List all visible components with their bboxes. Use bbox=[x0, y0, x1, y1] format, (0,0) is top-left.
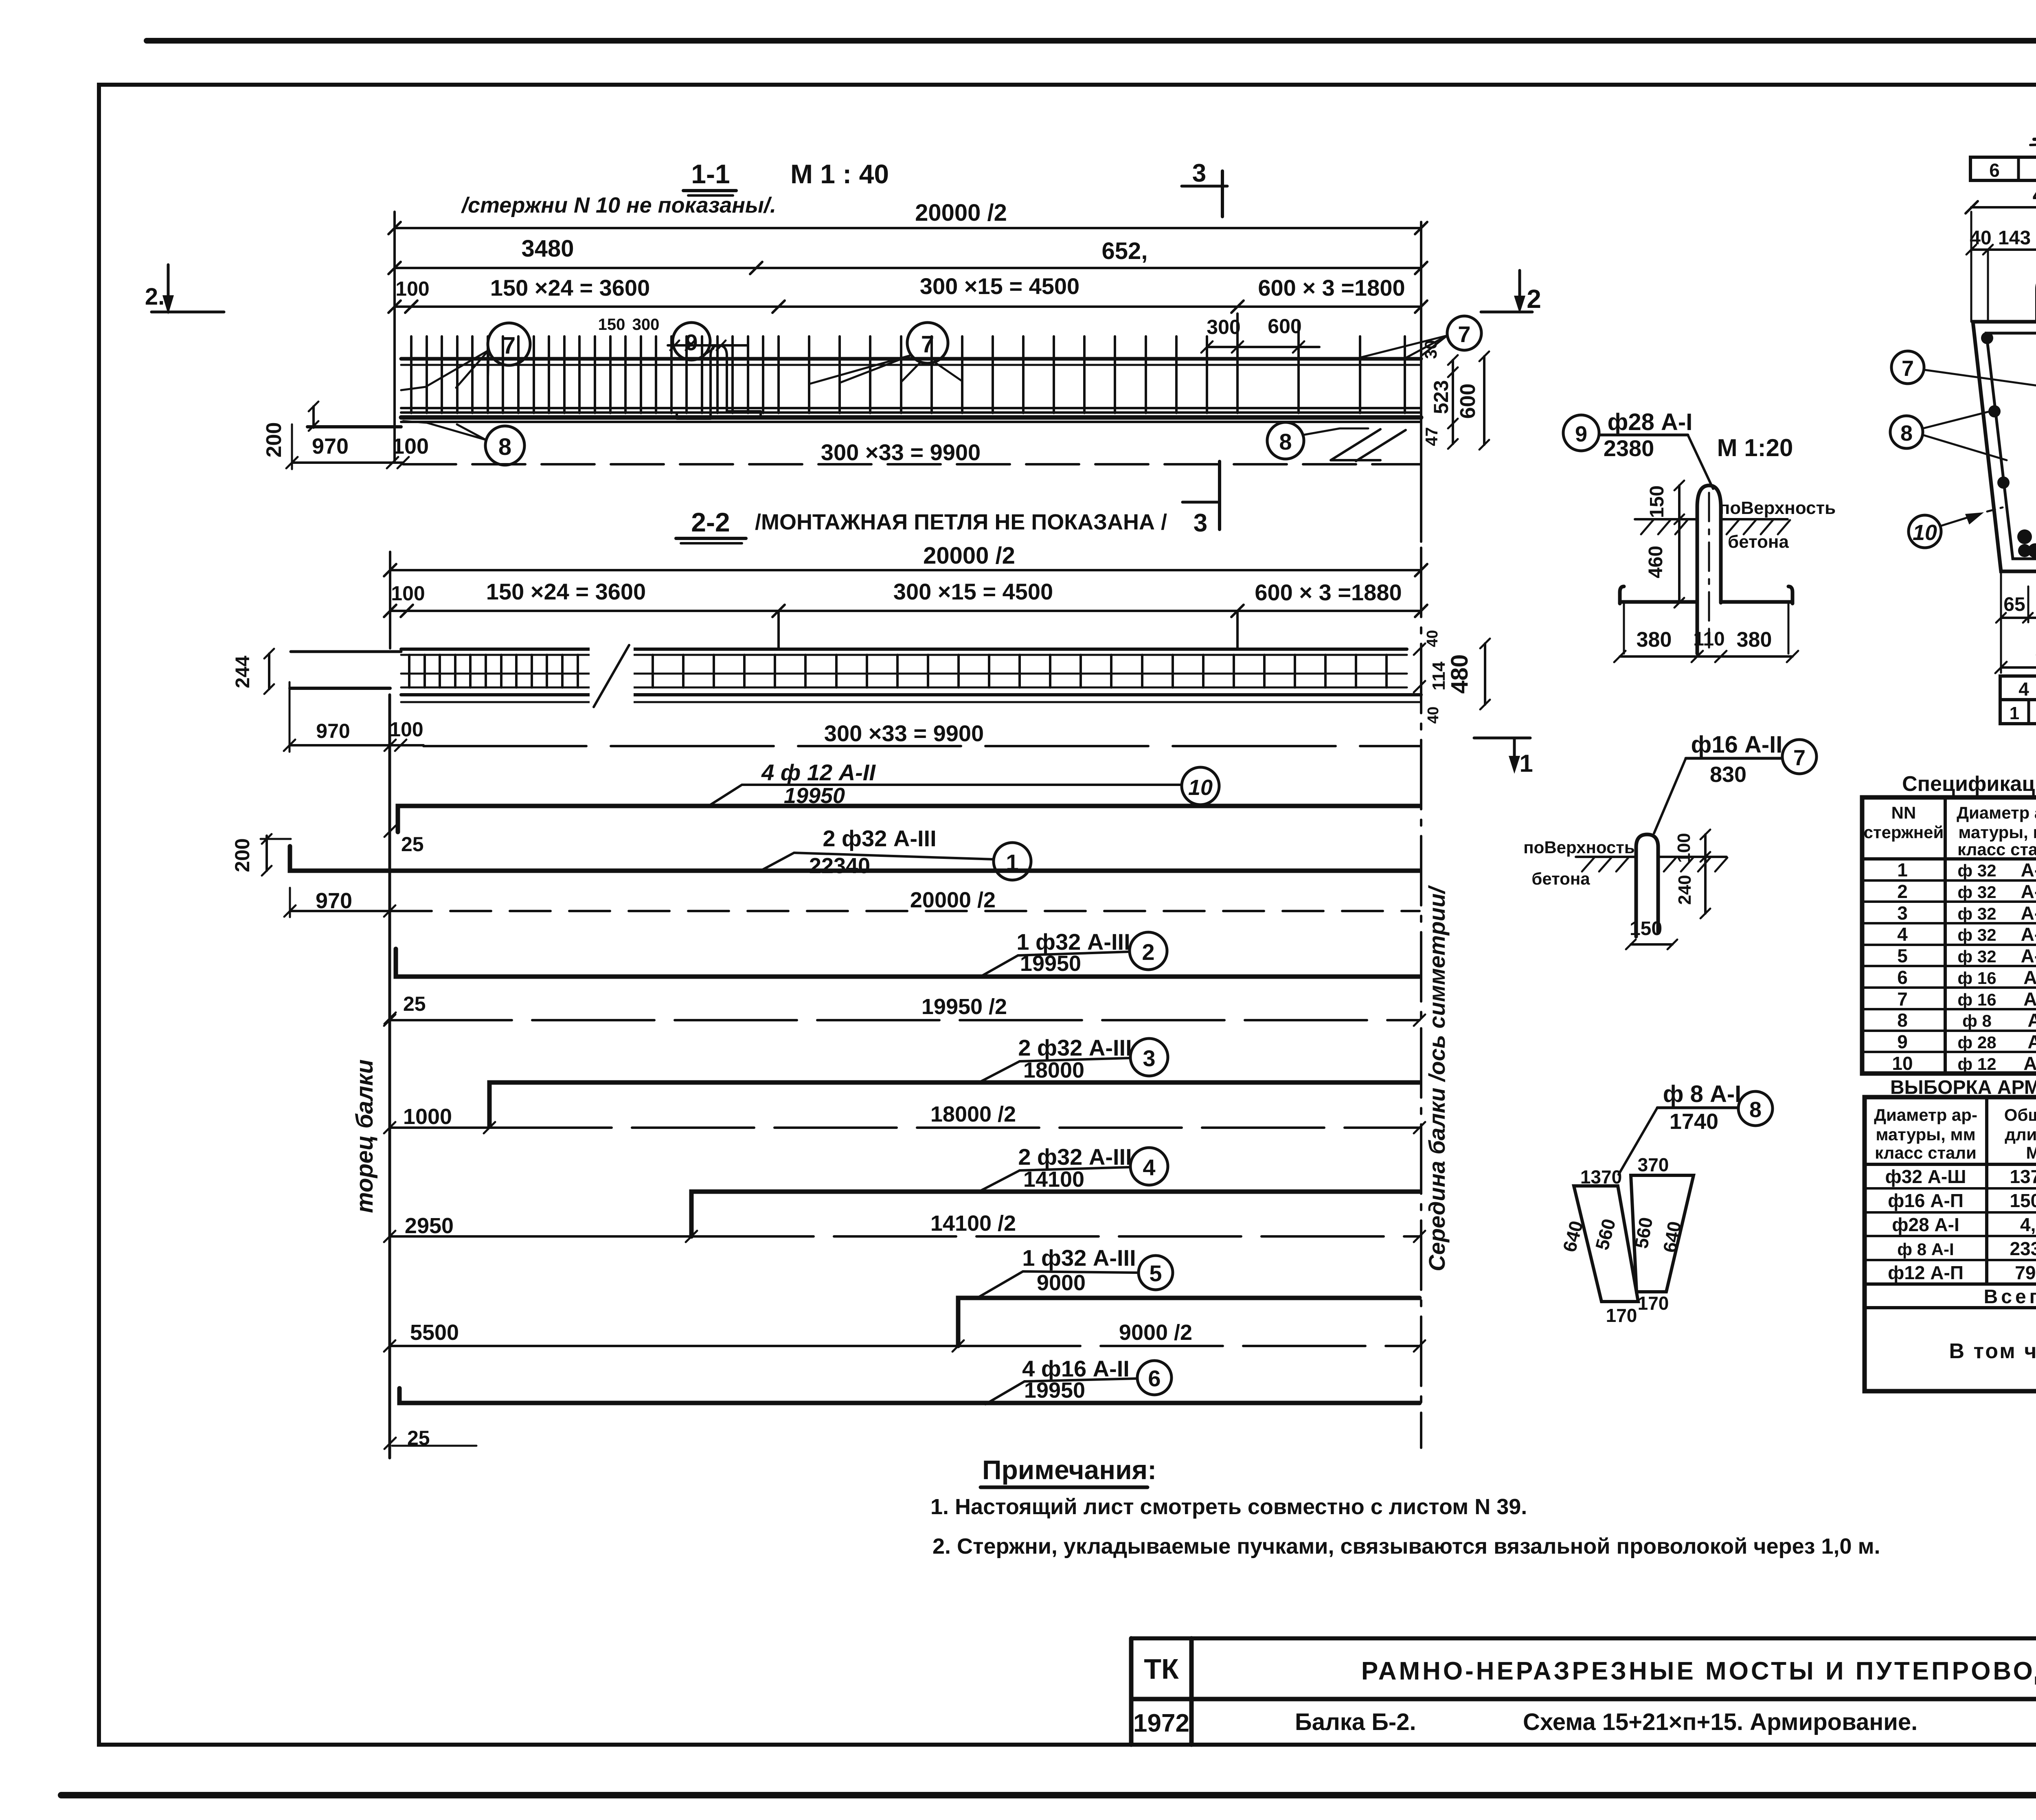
bar 4 label bbox=[979, 1144, 1168, 1192]
svg-text:Всего: Всего bbox=[1984, 1286, 2036, 1308]
svg-text:А-Ш: А-Ш bbox=[2021, 902, 2036, 924]
svg-text:480: 480 bbox=[2033, 181, 2036, 208]
40 143 114 143 40 dim bbox=[1966, 223, 2036, 255]
svg-text:200: 200 bbox=[262, 422, 286, 458]
svg-text:7: 7 bbox=[1458, 321, 1470, 347]
callout circle 7 right bbox=[1360, 316, 1481, 358]
table 2 title bbox=[1890, 1077, 2036, 1098]
callout circle 8 detail bbox=[1738, 1091, 1773, 1126]
svg-text:2-2: 2-2 bbox=[691, 507, 730, 537]
svg-text:А-Ш: А-Ш bbox=[2021, 859, 2036, 880]
table 1 header text bbox=[1864, 803, 2036, 859]
svg-text:Диаметр ар-: Диаметр ар- bbox=[1874, 1105, 1977, 1124]
section 3-3 title bbox=[2030, 110, 2036, 149]
dim row 1000 / 18000/2 bbox=[384, 1102, 1425, 1133]
symmetry axis vertical bbox=[1420, 548, 1422, 1448]
svg-text:ф28 А-I: ф28 А-I bbox=[1892, 1214, 1959, 1235]
callout circle 7 left bbox=[401, 323, 530, 390]
stirrups (bars 7) bbox=[411, 336, 1405, 413]
svg-text:ф 32: ф 32 bbox=[1957, 904, 1996, 923]
svg-text:2950: 2950 bbox=[405, 1214, 454, 1238]
svg-text:970: 970 bbox=[316, 889, 352, 913]
strip verticals bbox=[409, 655, 1387, 687]
svg-text:ф 8 А-I: ф 8 А-I bbox=[1897, 1240, 1954, 1259]
svg-text:1: 1 bbox=[1897, 859, 1908, 880]
callout circle 7 detail bbox=[1782, 740, 1817, 774]
svg-text:1000: 1000 bbox=[403, 1104, 452, 1129]
dim vertical right (axis) bbox=[1420, 222, 1422, 542]
svg-text:Примечания:: Примечания: bbox=[982, 1455, 1156, 1485]
beam top chord bbox=[401, 359, 1421, 365]
svg-text:2.: 2. bbox=[145, 283, 165, 310]
svg-text:Диаметр ар-: Диаметр ар- bbox=[1957, 803, 2036, 822]
svg-text:244: 244 bbox=[232, 656, 254, 688]
svg-text:20000 /2: 20000 /2 bbox=[923, 542, 1015, 569]
svg-text:ф 12: ф 12 bbox=[1957, 1054, 1996, 1074]
svg-text:бетона: бетона bbox=[1531, 869, 1590, 888]
svg-text:1-1: 1-1 bbox=[691, 159, 730, 189]
2-2 slab strip bbox=[401, 649, 1421, 702]
svg-text:3: 3 bbox=[1897, 902, 1908, 924]
left 244 bracket bbox=[232, 649, 401, 694]
svg-text:150: 150 bbox=[1630, 918, 1662, 940]
svg-text:1 ф32 А-III: 1 ф32 А-III bbox=[1022, 1245, 1136, 1271]
label ф16 A-II 830 bbox=[1654, 731, 1782, 833]
svg-text:652,: 652, bbox=[1102, 238, 1148, 264]
svg-text:А-П: А-П bbox=[2023, 988, 2036, 1010]
dim line 20000/2 (2-2) bbox=[384, 542, 1427, 576]
bar 10 bbox=[384, 806, 1419, 856]
svg-text:5500: 5500 bbox=[410, 1320, 459, 1345]
svg-text:25: 25 bbox=[403, 992, 426, 1015]
outer bottom scan line bbox=[61, 1792, 2036, 1798]
svg-text:9: 9 bbox=[685, 329, 698, 355]
dim line 20000/2 bbox=[388, 200, 1427, 234]
dim row 970 / 20000/2 bbox=[284, 888, 1419, 917]
svg-text:150,4: 150,4 bbox=[2010, 1190, 2036, 1211]
svg-text:1 ф32 А-III: 1 ф32 А-III bbox=[1016, 929, 1130, 955]
section mark 3 bottom bbox=[1183, 461, 1220, 537]
dim row 5500 / 9000/2 bbox=[384, 1320, 1425, 1352]
svg-text:9: 9 bbox=[1897, 1031, 1908, 1052]
svg-text:10: 10 bbox=[1913, 520, 1937, 545]
svg-text:10: 10 bbox=[1188, 775, 1213, 800]
svg-text:40: 40 bbox=[1424, 630, 1441, 647]
bar 10 label bbox=[709, 760, 1219, 808]
svg-text:100: 100 bbox=[395, 277, 429, 300]
callout circle 9 bbox=[673, 323, 713, 360]
svg-text:1: 1 bbox=[1006, 850, 1018, 875]
svg-text:300 ×15 = 4500: 300 ×15 = 4500 bbox=[893, 579, 1053, 604]
table 1 grid bbox=[1862, 797, 2036, 1074]
svg-text:8: 8 bbox=[1900, 421, 1913, 446]
section 2-2 title bbox=[676, 507, 1167, 543]
svg-text:поВерхность: поВерхность bbox=[1719, 498, 1836, 518]
svg-text:240: 240 bbox=[1675, 875, 1695, 905]
right side height dims 30 523 47 600 bbox=[1421, 340, 1489, 450]
svg-text:25: 25 bbox=[401, 833, 424, 856]
svg-text:300 ×33 = 9900: 300 ×33 = 9900 bbox=[821, 439, 981, 465]
svg-text:380: 380 bbox=[1737, 628, 1772, 652]
svg-text:8: 8 bbox=[498, 434, 511, 460]
svg-text:600: 600 bbox=[1456, 384, 1480, 419]
svg-text:ф 8: ф 8 bbox=[1962, 1011, 1992, 1030]
svg-text:4: 4 bbox=[1143, 1155, 1155, 1180]
380 110 380 dim bbox=[1614, 628, 1798, 662]
svg-text:600: 600 bbox=[1268, 315, 1301, 338]
svg-text:6: 6 bbox=[1897, 967, 1908, 988]
svg-text:18000 /2: 18000 /2 bbox=[930, 1102, 1016, 1126]
svg-text:2 ф32 А-III: 2 ф32 А-III bbox=[1018, 1035, 1132, 1060]
text 7 left numerals bbox=[498, 321, 1471, 460]
svg-text:300: 300 bbox=[1207, 316, 1240, 338]
callout circle 8 right bbox=[1267, 422, 1406, 461]
svg-text:40: 40 bbox=[1425, 707, 1442, 724]
svg-text:ф 16: ф 16 bbox=[1957, 968, 1996, 988]
dim line spacings (2-2) bbox=[384, 579, 1427, 649]
callout circle 8 left bbox=[403, 421, 524, 465]
bar 1 bbox=[290, 846, 1419, 871]
bottom 65 105 105 65 dim bbox=[1996, 571, 2036, 673]
svg-text:9: 9 bbox=[1575, 422, 1587, 446]
svg-text:Схема 15+21×п+15. Армировани: Схема 15+21×п+15. Армирование. bbox=[1523, 1709, 1918, 1735]
svg-text:матуры, мм: матуры, мм bbox=[1876, 1125, 1975, 1144]
svg-text:А-Ш: А-Ш bbox=[2021, 945, 2036, 966]
mini dims 300 600 right part bbox=[1201, 314, 1319, 371]
340 dim bbox=[1995, 638, 2036, 673]
svg-text:233,0: 233,0 bbox=[2010, 1238, 2036, 1259]
svg-text:47: 47 bbox=[1422, 427, 1441, 446]
svg-text:1: 1 bbox=[1519, 750, 1533, 777]
svg-text:20000 /2: 20000 /2 bbox=[915, 200, 1007, 226]
svg-text:22340: 22340 bbox=[809, 854, 870, 878]
svg-text:А-П: А-П bbox=[2023, 1053, 2036, 1074]
callout circle 7 middle bbox=[810, 323, 962, 384]
svg-text:1740: 1740 bbox=[1670, 1109, 1718, 1134]
svg-text:830: 830 bbox=[1710, 762, 1746, 787]
svg-text:Спецификация арматуры на од: Спецификация арматуры на одну балку. bbox=[1902, 772, 2036, 796]
svg-text:ф 8 А-I: ф 8 А-I bbox=[1663, 1081, 1742, 1107]
svg-text:ф16 А-II: ф16 А-II bbox=[1691, 731, 1783, 758]
right 480 dim (2-2) bbox=[1414, 630, 1490, 724]
svg-text:ф16 А-П: ф16 А-П bbox=[1888, 1190, 1964, 1211]
table 2 header text bbox=[1874, 1105, 2036, 1162]
section mark 2 left bbox=[145, 265, 224, 314]
svg-text:ф12 А-П: ф12 А-П bbox=[1888, 1262, 1964, 1283]
beam section outline bbox=[1973, 322, 2036, 571]
concrete surface hatch (ф16) bbox=[1523, 838, 1727, 888]
svg-text:класс стали: класс стали bbox=[1875, 1143, 1977, 1162]
svg-text:380: 380 bbox=[1637, 628, 1672, 652]
svg-text:7: 7 bbox=[1902, 356, 1914, 381]
dim row 19950/2 bbox=[384, 995, 1425, 1026]
bar 3 bbox=[489, 1082, 1419, 1126]
callout circle 10 (3-3) bbox=[1909, 507, 2003, 548]
svg-text:4 ф 12 А-II: 4 ф 12 А-II bbox=[761, 760, 876, 785]
svg-text:2: 2 bbox=[1897, 881, 1908, 902]
bar 6 bbox=[384, 1388, 1419, 1449]
svg-text:600 × 3 =1800: 600 × 3 =1800 bbox=[1258, 275, 1405, 301]
svg-text:А-Ш: А-Ш bbox=[2021, 881, 2036, 902]
svg-text:М: М bbox=[2026, 1143, 2036, 1162]
table 2 totals bbox=[1949, 1286, 2036, 1390]
svg-text:ф 32: ф 32 bbox=[1957, 925, 1996, 944]
svg-text:/стержни N 10 не показаны/.: /стержни N 10 не показаны/. bbox=[461, 193, 776, 217]
note: стержни N10 не показаны bbox=[461, 193, 776, 217]
svg-text:Середина балки /ось симметр: Середина балки /ось симметрии/ bbox=[1424, 885, 1450, 1271]
callout circle 7 (3-3) bbox=[1891, 351, 2036, 390]
svg-text:100: 100 bbox=[389, 718, 423, 741]
svg-text:4: 4 bbox=[2018, 678, 2029, 700]
svg-text:137,9: 137,9 bbox=[2010, 1166, 2036, 1187]
svg-text:300 ×33 = 9900: 300 ×33 = 9900 bbox=[824, 720, 984, 746]
svg-text:ф 32: ф 32 bbox=[1957, 883, 1996, 902]
svg-text:5: 5 bbox=[1149, 1260, 1162, 1286]
bar 2 bbox=[384, 949, 1419, 1024]
notes bbox=[930, 1455, 1880, 1559]
bar 2 label bbox=[981, 929, 1167, 977]
outer top scan line bbox=[147, 38, 2036, 44]
svg-text:14100 /2: 14100 /2 bbox=[930, 1211, 1016, 1236]
svg-text:150: 150 bbox=[1646, 485, 1668, 518]
svg-text:3: 3 bbox=[1194, 509, 1207, 537]
montage loop (bar 9 elevation) bbox=[677, 345, 761, 419]
table 1 data bbox=[1892, 859, 2036, 1074]
svg-text:150 ×24 = 3600: 150 ×24 = 3600 bbox=[490, 275, 650, 301]
dim line 100+150x24+300x15+600x3 bbox=[388, 273, 1427, 313]
strip break bbox=[590, 645, 634, 707]
table 1 title bbox=[1902, 772, 2036, 796]
svg-text:30: 30 bbox=[1421, 340, 1440, 359]
svg-text:7: 7 bbox=[1897, 988, 1908, 1010]
left 200 dim of 1-1 bbox=[262, 402, 401, 457]
svg-text:100: 100 bbox=[1674, 833, 1694, 863]
table 2 grid bbox=[1865, 1097, 2036, 1391]
svg-text:2 ф32 А-III: 2 ф32 А-III bbox=[1018, 1144, 1132, 1170]
left 970 100 dim of 1-1 bbox=[286, 424, 429, 469]
svg-text:А-I: А-I bbox=[2027, 1031, 2036, 1052]
svg-text:4,8: 4,8 bbox=[2020, 1214, 2036, 1235]
svg-text:7: 7 bbox=[502, 332, 516, 359]
table 2 data bbox=[1885, 1166, 2036, 1283]
svg-text:3: 3 bbox=[1192, 159, 1206, 187]
stirrup labels 640 560 560 640 370 170 bbox=[1558, 1154, 1685, 1326]
svg-text:150: 150 bbox=[598, 316, 625, 334]
svg-text:/МОНТАЖНАЯ ПЕТЛЯ НЕ ПОКАЗАНА /: /МОНТАЖНАЯ ПЕТЛЯ НЕ ПОКАЗАНА / bbox=[755, 510, 1167, 534]
svg-text:2380: 2380 bbox=[1604, 435, 1654, 461]
section mark 1 right bbox=[1474, 738, 1533, 777]
svg-text:бетона: бетона bbox=[1728, 532, 1789, 552]
svg-text:торец балки: торец балки bbox=[351, 1059, 378, 1213]
svg-text:7: 7 bbox=[921, 331, 934, 358]
200 dim bbox=[231, 834, 291, 876]
concrete surface hatch bbox=[1635, 498, 1836, 552]
svg-text:370: 370 bbox=[1638, 1154, 1669, 1175]
svg-text:8: 8 bbox=[1279, 429, 1292, 454]
svg-text:170: 170 bbox=[1638, 1293, 1669, 1314]
svg-text:480: 480 bbox=[1446, 654, 1473, 694]
dim 300x33=9900 (2-2) bbox=[423, 720, 1421, 746]
bar 3 label bbox=[979, 1035, 1168, 1082]
svg-text:длина,: длина, bbox=[2005, 1125, 2036, 1144]
480 dim bbox=[1966, 181, 2036, 213]
svg-text:ф28 А-I: ф28 А-I bbox=[1608, 409, 1693, 435]
середина балки vertical text bbox=[1424, 885, 1450, 1271]
label ф28 A-I 2380 bbox=[1599, 409, 1793, 489]
svg-text:А-Ш: А-Ш bbox=[2021, 924, 2036, 945]
svg-text:2: 2 bbox=[1527, 284, 1541, 314]
svg-text:970: 970 bbox=[316, 720, 350, 742]
svg-text:200: 200 bbox=[231, 838, 254, 872]
svg-text:ф32 А-Ш: ф32 А-Ш bbox=[1885, 1166, 1966, 1187]
svg-text:114: 114 bbox=[1429, 661, 1449, 691]
150 460 dims bbox=[1645, 481, 1684, 608]
svg-text:1: 1 bbox=[2010, 703, 2019, 723]
svg-text:1972: 1972 bbox=[1133, 1709, 1189, 1737]
svg-text:ф 16: ф 16 bbox=[1957, 990, 1996, 1009]
svg-text:600 × 3 =1880: 600 × 3 =1880 bbox=[1255, 580, 1402, 605]
section mark 2 right bbox=[1481, 270, 1541, 314]
svg-text:А-I: А-I bbox=[2027, 1010, 2036, 1031]
bar 7 shape (hairpin) bbox=[1636, 834, 1658, 937]
dim line 3480 | 652 bbox=[388, 235, 1427, 274]
svg-text:6: 6 bbox=[1148, 1366, 1161, 1391]
callout circle 9 detail bbox=[1563, 415, 1599, 451]
svg-text:ф 32: ф 32 bbox=[1957, 861, 1996, 880]
svg-text:6: 6 bbox=[1989, 160, 2000, 181]
100 240 dims bbox=[1674, 830, 1710, 918]
svg-text:8: 8 bbox=[1749, 1098, 1762, 1122]
svg-text:5: 5 bbox=[1897, 945, 1908, 966]
svg-text:40: 40 bbox=[1970, 227, 1991, 249]
dim vertical left (2-2) bbox=[389, 552, 391, 648]
svg-text:79,8: 79,8 bbox=[2015, 1262, 2036, 1283]
bar 5 bbox=[958, 1298, 1419, 1346]
bar 5 label bbox=[977, 1245, 1173, 1298]
svg-text:1370: 1370 bbox=[1580, 1166, 1622, 1188]
svg-text:Общая: Общая bbox=[2004, 1105, 2036, 1124]
svg-text:поВерхность: поВерхность bbox=[1523, 838, 1635, 857]
dim vertical left (beam end) bbox=[393, 212, 396, 462]
svg-text:170: 170 bbox=[1606, 1305, 1637, 1326]
svg-text:19950: 19950 bbox=[784, 784, 845, 808]
svg-text:2 ф32 А-III: 2 ф32 А-III bbox=[823, 825, 936, 851]
section 1-1 title bbox=[683, 159, 889, 195]
label ф8 A-I 1740 bbox=[1619, 1081, 1741, 1175]
dim row 2950 / 14100/2 bbox=[384, 1211, 1425, 1242]
svg-text:150 ×24 = 3600: 150 ×24 = 3600 bbox=[486, 579, 646, 604]
svg-text:класс стали: класс стали bbox=[1957, 840, 2036, 859]
150 dim bbox=[1626, 918, 1677, 949]
svg-text:В том числе: В том числе bbox=[1949, 1339, 2036, 1363]
dim line 300x33=9900 below beam bbox=[403, 439, 1421, 465]
svg-text:10: 10 bbox=[1892, 1053, 1913, 1074]
svg-text:100: 100 bbox=[392, 434, 429, 459]
svg-text:4: 4 bbox=[1897, 924, 1908, 945]
svg-text:100: 100 bbox=[391, 582, 425, 605]
svg-text:300 ×15 = 4500: 300 ×15 = 4500 bbox=[920, 273, 1079, 299]
svg-text:А-П: А-П bbox=[2023, 967, 2036, 988]
beam end vertical (торец) bbox=[388, 695, 391, 1458]
bar 9 shape (vertical pin with rounded top) bbox=[1697, 485, 1721, 654]
svg-text:матуры, мм: матуры, мм bbox=[1958, 823, 2036, 842]
svg-text:523: 523 bbox=[1430, 380, 1452, 414]
stirrup legs shape bbox=[1574, 1175, 1694, 1302]
bottom bar bundle bbox=[401, 408, 1421, 422]
svg-text:65: 65 bbox=[2003, 594, 2025, 615]
section mark 3 top bbox=[1182, 159, 1227, 217]
svg-text:970: 970 bbox=[312, 434, 349, 459]
inner stirrup outline bbox=[1986, 333, 2036, 559]
svg-text:9000 /2: 9000 /2 bbox=[1119, 1320, 1192, 1345]
svg-text:М 1 : 40: М 1 : 40 bbox=[790, 159, 889, 189]
svg-text:19950 /2: 19950 /2 bbox=[921, 995, 1007, 1019]
svg-text:300: 300 bbox=[632, 316, 660, 334]
title block bbox=[1131, 1602, 2036, 1745]
svg-text:110: 110 bbox=[1693, 628, 1724, 650]
торец балки vertical text bbox=[351, 1059, 378, 1213]
svg-text:460: 460 bbox=[1645, 546, 1667, 578]
bottom anchor plate bbox=[1620, 586, 1792, 654]
svg-text:ф 28: ф 28 bbox=[1957, 1033, 1996, 1052]
bottom piece strip table bbox=[2000, 676, 2036, 724]
svg-text:ТК: ТК bbox=[1144, 1653, 1179, 1685]
dim extension verticals bbox=[1971, 212, 2036, 322]
svg-text:РАМНО-НЕРАЗРЕЗНЫЕ МОСТЫ И ПУТЕ: РАМНО-НЕРАЗРЕЗНЫЕ МОСТЫ И ПУТЕПРОВОДЫ. bbox=[1361, 1657, 2036, 1685]
svg-text:ф 32: ф 32 bbox=[1957, 947, 1996, 966]
svg-text:3480: 3480 bbox=[521, 235, 574, 262]
svg-text:8: 8 bbox=[1897, 1010, 1908, 1031]
mini dims 150 300 near loop bbox=[598, 316, 747, 350]
svg-text:Балка Б-2.: Балка Б-2. bbox=[1295, 1709, 1416, 1735]
svg-text:3: 3 bbox=[1143, 1045, 1155, 1071]
bar 1 label bbox=[761, 825, 1031, 880]
svg-text:20000 /2: 20000 /2 bbox=[910, 888, 996, 912]
svg-text:М 1:20: М 1:20 bbox=[1717, 434, 1793, 461]
svg-text:стержней: стержней bbox=[1864, 823, 1944, 842]
top piece strip table bbox=[1970, 157, 2036, 181]
svg-text:4 ф16 А-II: 4 ф16 А-II bbox=[1022, 1356, 1130, 1381]
bar 4 bbox=[691, 1192, 1419, 1236]
970 100 dim (2-2) bbox=[284, 682, 423, 752]
svg-text:143: 143 bbox=[1998, 227, 2031, 249]
svg-text:NN: NN bbox=[1891, 803, 1916, 822]
svg-text:7: 7 bbox=[1793, 746, 1806, 770]
svg-text:2. Стержни, укладываемые пучк: 2. Стержни, укладываемые пучками, связыв… bbox=[932, 1534, 1880, 1559]
bar 6 label bbox=[985, 1356, 1172, 1404]
rebar dots bbox=[1981, 332, 2036, 558]
svg-text:1. Настоящий лист смотреть: 1. Настоящий лист смотреть совместно с л… bbox=[930, 1495, 1527, 1519]
svg-text:2: 2 bbox=[1142, 939, 1154, 965]
svg-text:9000: 9000 bbox=[1037, 1271, 1086, 1295]
callout circle 8 (3-3) bbox=[1890, 411, 2007, 460]
